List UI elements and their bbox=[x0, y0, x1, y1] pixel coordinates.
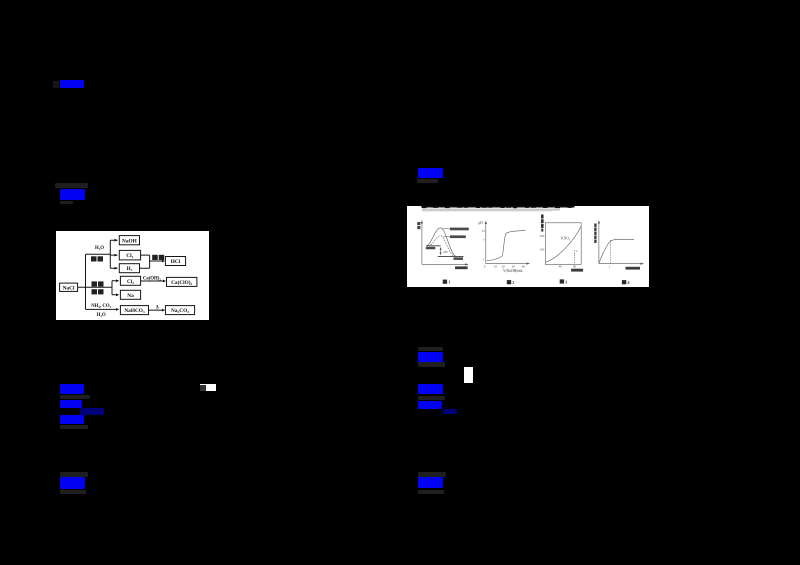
svg-text:NH3, CO2: NH3, CO2 bbox=[91, 304, 111, 309]
svg-text:3: 3 bbox=[566, 280, 568, 285]
svg-text:10: 10 bbox=[494, 265, 498, 269]
svg-text:80: 80 bbox=[573, 265, 577, 269]
svg-text:Ca(ClO)2: Ca(ClO)2 bbox=[171, 279, 192, 286]
svg-text:H2O: H2O bbox=[95, 246, 104, 251]
svg-text:Na2CO3: Na2CO3 bbox=[171, 308, 189, 314]
svg-text:t: t bbox=[610, 265, 611, 269]
svg-text:Cl2: Cl2 bbox=[126, 253, 133, 259]
svg-text:1: 1 bbox=[449, 280, 451, 285]
svg-text:2: 2 bbox=[513, 280, 515, 285]
svg-text:7: 7 bbox=[483, 239, 485, 243]
svg-text:30: 30 bbox=[512, 265, 516, 269]
svg-text:20: 20 bbox=[502, 265, 506, 269]
svg-text:Na: Na bbox=[127, 293, 134, 299]
svg-text:H2: H2 bbox=[126, 266, 132, 272]
svg-text:1: 1 bbox=[483, 258, 485, 262]
svg-text:13: 13 bbox=[482, 229, 486, 233]
svg-text:V(NaOH)/mL: V(NaOH)/mL bbox=[503, 269, 523, 273]
svg-text:NaOH: NaOH bbox=[122, 238, 138, 244]
svg-text:200: 200 bbox=[540, 234, 545, 238]
svg-text:Ca(OH)2: Ca(OH)2 bbox=[143, 277, 162, 282]
svg-text:ΔH: ΔH bbox=[443, 250, 448, 254]
svg-text:HCl: HCl bbox=[171, 259, 181, 265]
svg-text:4: 4 bbox=[628, 280, 631, 285]
svg-text:40: 40 bbox=[559, 265, 563, 269]
svg-text:H2O: H2O bbox=[97, 313, 106, 318]
svg-text:40: 40 bbox=[522, 265, 526, 269]
svg-text:NaCl: NaCl bbox=[63, 285, 75, 291]
svg-text:0: 0 bbox=[484, 265, 486, 269]
svg-text:Cl2: Cl2 bbox=[127, 279, 134, 285]
svg-text:Δ: Δ bbox=[156, 306, 159, 311]
svg-text:100: 100 bbox=[540, 248, 545, 252]
svg-text:NaHCO3: NaHCO3 bbox=[124, 308, 145, 314]
svg-text:pH: pH bbox=[479, 221, 484, 225]
svg-text:a: a bbox=[576, 249, 578, 253]
svg-text:KNO3: KNO3 bbox=[561, 237, 571, 242]
